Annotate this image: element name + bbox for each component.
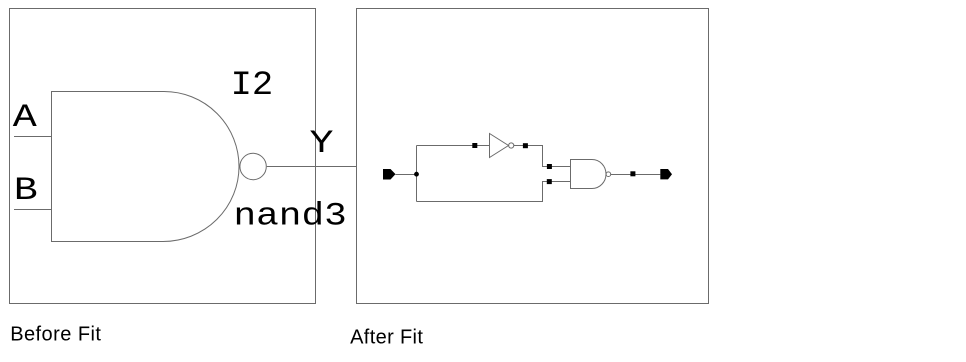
- svg-text:B: B: [14, 172, 38, 208]
- svg-text:Before Fit: Before Fit: [10, 324, 101, 346]
- svg-text:nand3: nand3: [234, 198, 347, 235]
- svg-text:A: A: [13, 99, 37, 135]
- svg-text:After Fit: After Fit: [350, 326, 423, 348]
- svg-text:Y: Y: [310, 125, 334, 161]
- svg-text:I2: I2: [231, 65, 274, 104]
